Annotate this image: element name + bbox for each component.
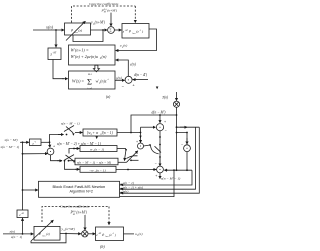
wire into R3 <box>69 160 76 162</box>
block R1 [w0+w1](n-1) <box>83 129 117 136</box>
svg-text:-M': -M' <box>52 52 56 55</box>
svg-text:](n − 1): ](n − 1) <box>100 131 113 135</box>
svg-text:+: + <box>155 174 157 178</box>
svg-text:Block Exact FastLMS Newton: Block Exact FastLMS Newton <box>53 184 106 189</box>
svg-text:x(n − M'): x(n − M') <box>4 138 19 142</box>
svg-text:(n): (n) <box>102 54 107 59</box>
svg-text:-M': -M' <box>98 233 102 235</box>
svg-text:): ) <box>141 30 144 34</box>
svg-text:M: M <box>72 213 76 216</box>
wire R4 out to C3 <box>116 169 156 171</box>
svg-text:+: + <box>136 140 138 144</box>
svg-text:e(n − 1): e(n − 1) <box>123 181 134 185</box>
svg-text:-M: -M <box>21 213 24 215</box>
switch row1 <box>64 126 74 132</box>
svg-text:M: M <box>103 12 107 14</box>
wire right nest vertical 1 <box>120 127 196 189</box>
multiplier M1 <box>173 101 179 107</box>
switch arm mid <box>127 156 138 159</box>
wire into C3 left <box>153 169 156 171</box>
svg-text:W'(z) =: W'(z) = <box>72 79 84 84</box>
wire down to delay <box>55 30 57 47</box>
switch row3 <box>65 155 75 160</box>
block Book Exact <box>39 181 120 197</box>
filter W'(z) block <box>69 71 116 89</box>
svg-text:−: − <box>181 143 183 147</box>
backward filter z^-M'P_lms(z^-1) block <box>122 24 149 39</box>
svg-text:(k): (k) <box>104 8 107 11</box>
wire bus d to summer SB top <box>131 115 177 133</box>
svg-text:(n): (n) <box>139 232 144 236</box>
wire C3 output down <box>159 173 161 179</box>
svg-text:): ) <box>114 233 117 237</box>
svg-text:P̂: P̂ <box>128 29 132 34</box>
wire S3 down to bus <box>186 152 188 171</box>
svg-text:Copy the coefficients: Copy the coefficients <box>60 204 90 208</box>
summer C3 <box>157 166 164 173</box>
wire cross down <box>124 150 126 161</box>
svg-text:+: + <box>164 120 166 124</box>
summer S3 <box>184 145 191 152</box>
svg-text:Copy the coefficients: Copy the coefficients <box>89 2 119 6</box>
svg-text:x(n − 1): x(n − 1) <box>10 235 23 239</box>
wire M1 output down <box>176 107 178 170</box>
svg-text:−w: −w <box>89 168 94 172</box>
wire into R1 <box>75 132 82 134</box>
svg-text:x(n): x(n) <box>45 24 54 29</box>
svg-text:+: + <box>132 82 135 87</box>
svg-text:d(n − Δ'): d(n − Δ') <box>134 73 148 77</box>
svg-text:(n)z: (n)z <box>100 79 107 84</box>
svg-text:lms: lms <box>132 33 135 35</box>
delay z^-M block bottom <box>17 210 28 218</box>
adaptation diagonal arrow <box>66 21 85 40</box>
delay z^-1 block <box>30 139 42 146</box>
wire left long vertical <box>22 142 24 210</box>
node input junction <box>55 29 57 31</box>
wire corner up to SB <box>140 127 142 132</box>
summer SB <box>156 124 163 131</box>
svg-text:+ w: + w <box>92 131 98 135</box>
wire box4 out stub <box>124 233 135 235</box>
wire corner down to C2 <box>140 133 142 143</box>
wire feedback loop bottom <box>31 234 66 243</box>
summer C5 <box>47 148 54 155</box>
wire feedback loop under P box <box>73 30 103 42</box>
block P_lms bottom <box>34 226 60 240</box>
block backward filter bottom <box>96 227 124 241</box>
svg-text:x(n − M' − 1) − x(n − M): x(n − M' − 1) − x(n − M) <box>76 161 111 165</box>
wire SB down to C3 <box>159 131 161 166</box>
hollow update arrow <box>93 65 99 72</box>
svg-text:+: + <box>136 151 138 155</box>
wire x bottom main <box>3 233 33 235</box>
block R4 -w2(n-1) <box>80 166 116 172</box>
wire f into summer S1 <box>110 13 112 27</box>
wire predictor output <box>91 29 108 31</box>
summer S1 <box>108 27 115 34</box>
dashed copy path (a) <box>72 6 136 23</box>
svg-text:Σ: Σ <box>87 77 92 87</box>
wire right nest vertical 2 <box>120 127 200 193</box>
node on M1 wire <box>176 114 178 116</box>
block R3 x(n-M'-1)-x(n-M) <box>75 158 118 165</box>
svg-text:(n − 1): (n − 1) <box>96 168 107 172</box>
adaptive predictor P_lms(z) block <box>65 23 91 35</box>
svg-text:−: − <box>151 126 153 130</box>
block R2 w1(n-1) <box>80 146 117 152</box>
wire filter output into summer S2 <box>115 79 125 81</box>
svg-text:(n+M'): (n+M') <box>76 210 87 214</box>
dashed copy path b2 <box>42 207 109 223</box>
svg-text:(b): (b) <box>100 244 105 249</box>
multiplier S5 <box>82 231 88 237</box>
wire R1 out to corner <box>117 132 141 134</box>
wire branch down to C5 <box>49 142 51 147</box>
summer C2 <box>138 143 144 149</box>
wire R2 out <box>117 148 126 150</box>
svg-text:(a): (a) <box>106 95 111 99</box>
wire into R2 <box>69 149 79 154</box>
wire S5 to box4 <box>88 233 95 235</box>
wire label into S5 top <box>84 215 86 230</box>
wire z(n) into multiplier <box>176 92 178 101</box>
wire C2 out <box>144 145 151 146</box>
wire R3 out <box>118 161 127 163</box>
svg-text:-M': -M' <box>124 30 128 32</box>
svg-text:P̂: P̂ <box>101 232 104 237</box>
wire delay to filter block <box>53 60 64 79</box>
wire nest lower <box>120 170 174 196</box>
node output junction <box>102 29 104 31</box>
svg-text:M-1: M-1 <box>87 73 92 76</box>
wire x(n) input <box>33 29 64 31</box>
wire nest e1 <box>120 170 192 185</box>
svg-text:e(n − M' − 1): e(n − M' − 1) <box>161 176 181 180</box>
svg-text:lms: lms <box>42 235 45 237</box>
svg-text:P̂: P̂ <box>70 28 74 33</box>
svg-text:(z): (z) <box>46 232 50 236</box>
wire z1 out <box>41 141 50 143</box>
svg-text:−: − <box>165 128 167 132</box>
weight update block W'(n+1) <box>69 45 116 65</box>
wire into R4 <box>65 161 80 170</box>
svg-text:(z): (z) <box>78 28 83 32</box>
svg-text:-1: -1 <box>34 141 36 143</box>
svg-text:e(n): e(n) <box>130 63 137 67</box>
wire cross up <box>127 151 138 163</box>
wire e(n) into update block <box>119 60 128 76</box>
svg-text:x(n): x(n) <box>9 229 16 233</box>
mark small arrow <box>156 87 159 90</box>
svg-text:+: + <box>53 145 55 149</box>
rung M1 wire to S3 <box>177 133 188 145</box>
wire e return top right <box>177 126 200 128</box>
wire second x row to C5 <box>23 153 48 155</box>
svg-text:(n+M'): (n+M') <box>65 227 76 231</box>
wire d(n-D') into S2 <box>133 79 148 81</box>
wire up into zB <box>22 218 24 234</box>
svg-text:lms: lms <box>105 236 108 238</box>
svg-text:W'(n) + 2μe(n)u: W'(n) + 2μe(n)u <box>71 54 98 59</box>
wire down into SB <box>159 115 161 123</box>
svg-text:Σ: Σ <box>109 29 112 33</box>
wire row1 into SB left <box>141 126 156 128</box>
svg-text:Algorithm N=2: Algorithm N=2 <box>70 190 93 194</box>
svg-text:(n+M'): (n+M') <box>107 8 118 12</box>
delay z^-M' block <box>48 48 61 60</box>
svg-text:W'(n+1) =: W'(n+1) = <box>71 47 89 52</box>
wire branch up to row1 <box>50 135 64 143</box>
svg-text:x(n − M' − 1): x(n − M' − 1) <box>60 121 81 125</box>
svg-text:−: − <box>122 83 125 88</box>
svg-text:-i: -i <box>107 78 109 81</box>
summer S2 <box>125 76 132 83</box>
svg-text:e(n): e(n) <box>123 190 128 194</box>
wire box3 to S5 <box>60 233 81 235</box>
wire C5 out <box>51 155 63 161</box>
svg-text:i=-Δ: i=-Δ <box>87 87 92 90</box>
svg-text:−: − <box>155 162 157 166</box>
svg-text:(n): (n) <box>123 44 128 48</box>
wire bus y170 <box>165 169 193 171</box>
switch arc <box>151 146 159 154</box>
svg-text:(n − 1): (n − 1) <box>94 148 105 152</box>
svg-text:z̄(n): z̄(n) <box>162 96 169 100</box>
wire into book left <box>23 189 38 191</box>
wire S1 to backward filter <box>114 29 121 31</box>
svg-text:d(n − M'): d(n − M') <box>152 110 167 114</box>
svg-text:x(n − M' − 1): x(n − M' − 1) <box>0 145 20 149</box>
wire u_L elbow into weight update box <box>119 29 157 51</box>
adaptation diagonal bottom <box>31 220 53 241</box>
node mid stub <box>130 159 132 161</box>
wire main x line <box>20 141 29 143</box>
svg-text:(n+M'): (n+M') <box>95 21 106 25</box>
mark arrow below R1 <box>95 136 98 139</box>
